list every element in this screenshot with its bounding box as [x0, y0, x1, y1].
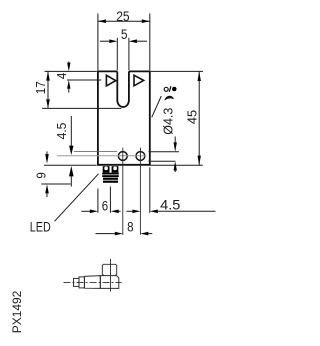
- dim 25 extension right: [149, 14, 151, 71]
- dim 5 arrow right: [129, 39, 137, 43]
- dim 9 arrow up: [45, 184, 49, 193]
- dim 5 line left tail: [100, 40, 109, 42]
- dim 4 arrow bottom: [67, 80, 70, 89]
- connector end extension left: [41, 183, 70, 185]
- svg-text:5: 5: [121, 26, 128, 42]
- svg-text:25: 25: [116, 8, 130, 24]
- side view horizontal centerline: [64, 281, 122, 283]
- dim 45 arrow top: [198, 71, 201, 81]
- dim 4.5 right tail: [158, 210, 216, 212]
- dim 4.5 left arrow up: [69, 166, 74, 177]
- dim 45 extension top: [151, 70, 203, 72]
- dim 4.5 left tail bottom: [70, 176, 72, 186]
- mounting hole right: [136, 152, 145, 161]
- dim 9 tail bottom: [46, 193, 48, 197]
- indicator symbol slash: [169, 86, 171, 92]
- dim 8 tail right: [148, 233, 152, 235]
- indicator symbol dot: [172, 87, 177, 92]
- extension body right bottom vertical: [149, 167, 151, 213]
- dim 6 tail left: [81, 210, 90, 212]
- indicator symbol circle: [164, 87, 168, 91]
- dim 8 tail left: [96, 233, 115, 235]
- dim 25 line: [98, 20, 150, 22]
- dia 4.3 extension bottom: [149, 160, 176, 162]
- optical axis triangle left: [106, 75, 115, 86]
- svg-text:45: 45: [185, 110, 200, 124]
- dim 45 extension bottom: [151, 164, 203, 166]
- extension body left bottom vertical: [97, 189, 99, 213]
- side view barrel large: [84, 276, 100, 289]
- dim 25 arrow left: [98, 19, 106, 23]
- svg-text:Ø4.3: Ø4.3: [161, 108, 176, 135]
- dim 6 arrow left: [90, 210, 98, 214]
- side view upper block: [102, 264, 116, 275]
- dim 4 line: [68, 62, 70, 64]
- side view barrel middle: [79, 277, 84, 288]
- dim 4.5 right arrow left: [132, 210, 140, 214]
- dim 8 arrow left: [115, 232, 123, 236]
- dia 4.3 arrow down: [174, 142, 177, 151]
- dim 4.5 right tail left: [126, 210, 132, 212]
- connector front view: [102, 166, 119, 183]
- svg-text:4.5: 4.5: [160, 196, 180, 212]
- dia 4.3 tail bottom: [174, 170, 176, 172]
- LED leader line: [55, 174, 99, 222]
- dim 17 arrow top: [46, 71, 50, 80]
- dim 5 line right tail: [137, 40, 147, 42]
- svg-text:8: 8: [127, 219, 134, 235]
- dim 8 arrow right: [140, 232, 148, 236]
- optical axis triangle right: [134, 75, 144, 86]
- svg-text:LED: LED: [30, 219, 51, 235]
- side view vertical centerline: [110, 259, 112, 292]
- svg-text:6: 6: [102, 197, 109, 213]
- hole top tangent line left: [74, 151, 117, 153]
- dia 4.3 dim line top: [174, 137, 176, 144]
- dim 4.5 left line top tail: [70, 116, 72, 146]
- dim 4 line bottom tail: [68, 89, 70, 93]
- svg-text:PX1492: PX1492: [10, 291, 24, 334]
- dim 6 arrow right: [111, 210, 119, 214]
- dia 4.3 extension top: [149, 151, 180, 153]
- slot U-shape: [117, 71, 129, 107]
- indicator squiggle: [164, 96, 173, 101]
- slot depth extension line: [42, 107, 121, 109]
- dim 6 tail right: [119, 210, 121, 212]
- dim 4.5 right arrow right: [150, 210, 158, 214]
- extension hole left centerline vertical: [122, 148, 124, 235]
- indicator leader line: [152, 96, 162, 117]
- svg-text:17: 17: [33, 81, 48, 94]
- mounting hole left: [118, 152, 127, 161]
- dim 45 arrow bottom: [198, 156, 201, 166]
- dim 4.5 left arrow down: [69, 146, 73, 155]
- dim 17 arrow bottom: [46, 99, 50, 108]
- dia 4.3 arrow up: [174, 161, 177, 170]
- body bottom extension left: [44, 164, 97, 166]
- dim 5 extension right: [128, 38, 130, 70]
- body top extension left: [45, 70, 97, 72]
- dim 9 arrow down: [45, 154, 49, 164]
- dim 25 arrow right: [142, 19, 150, 23]
- side view main block: [100, 276, 119, 289]
- dim 5 extension left: [116, 38, 118, 70]
- svg-text:9: 9: [33, 172, 48, 178]
- dim 4 arrow top: [67, 63, 70, 72]
- dim 5 arrow left: [109, 39, 117, 43]
- extension hole right centerline vertical: [139, 148, 141, 235]
- dim 45 line: [198, 71, 200, 165]
- side view barrel tip: [74, 278, 80, 286]
- sensor body outline: [98, 71, 150, 164]
- extension connector centerline vertical: [109, 187, 111, 213]
- dim 17 line: [47, 71, 49, 108]
- dim 9 line top tail: [46, 151, 48, 154]
- hole centerline horizontal gray: [57, 155, 147, 157]
- dim 25 extension left: [97, 14, 99, 71]
- svg-text:4: 4: [54, 73, 69, 79]
- svg-text:4.5: 4.5: [54, 123, 69, 140]
- optical axis extension left: [67, 79, 101, 81]
